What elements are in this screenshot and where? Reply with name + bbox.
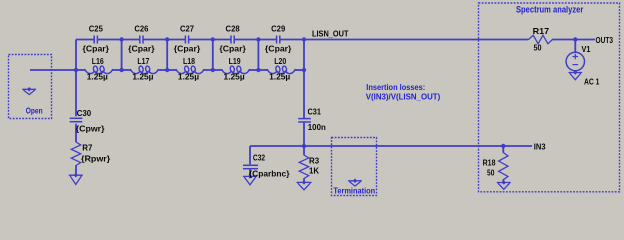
svg-text:1.25µ: 1.25µ [178,72,199,82]
svg-text:1.25µ: 1.25µ [87,72,108,82]
svg-text:L18: L18 [183,56,195,66]
svg-text:1K: 1K [309,166,319,176]
svg-text:{Rpwr}: {Rpwr} [81,153,111,163]
svg-text:C27: C27 [180,24,194,34]
svg-text:C29: C29 [271,24,285,34]
svg-text:50: 50 [534,42,542,52]
svg-text:C28: C28 [226,24,240,34]
svg-text:{Cpar}: {Cpar} [265,43,292,53]
svg-text:R18: R18 [483,157,496,167]
svg-text:1.25µ: 1.25µ [132,72,153,82]
svg-text:{Cpar}: {Cpar} [128,43,155,53]
svg-text:OUT3: OUT3 [596,35,614,45]
svg-text:AC 1: AC 1 [584,77,600,87]
svg-text:C26: C26 [134,24,148,34]
svg-text:100n: 100n [308,122,326,132]
svg-text:1.25µ: 1.25µ [224,72,245,82]
svg-text:Spectrum analyzer: Spectrum analyzer [516,5,584,15]
svg-text:L17: L17 [137,56,149,66]
svg-text:L20: L20 [274,56,286,66]
svg-text:Open: Open [26,105,43,115]
svg-text:L16: L16 [92,56,104,66]
svg-text:50: 50 [487,168,495,178]
svg-text:L19: L19 [229,56,241,66]
svg-text:{Cpwr}: {Cpwr} [76,123,106,133]
svg-text:R17: R17 [533,26,550,36]
svg-text:LISN_OUT: LISN_OUT [312,29,349,39]
svg-text:C30: C30 [77,108,92,118]
svg-text:R3: R3 [309,155,319,165]
svg-text:{Cpar}: {Cpar} [83,43,110,53]
svg-text:1.25µ: 1.25µ [269,72,290,82]
svg-text:C31: C31 [308,106,322,116]
svg-text:{Cpar}: {Cpar} [174,43,201,53]
svg-text:{Cparbnc}: {Cparbnc} [249,168,290,178]
svg-text:IN3: IN3 [534,141,546,151]
svg-text:V(IN3)/V(LISN_OUT): V(IN3)/V(LISN_OUT) [366,91,441,101]
svg-text:V1: V1 [582,44,591,54]
svg-text:R7: R7 [82,142,93,152]
svg-text:Termination: Termination [333,185,375,195]
svg-text:C25: C25 [89,24,103,34]
svg-text:{Cpar}: {Cpar} [219,43,246,53]
svg-text:C32: C32 [253,152,265,162]
